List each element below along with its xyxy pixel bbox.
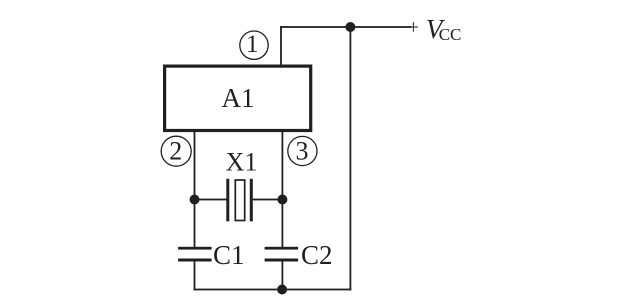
capacitor C1 top plate [178,247,212,250]
svg-text:X1: X1 [226,147,258,176]
svg-text:2: 2 [169,137,182,166]
svg-text:C2: C2 [301,240,333,270]
svg-text:A1: A1 [222,83,255,113]
junction node bottom dot [277,285,287,295]
pin 2 circle [161,136,191,166]
junction node crystal left dot [190,195,200,205]
wire C2 bottom plate to rail [282,261,284,291]
wire top horizontal to +VCC [280,26,411,28]
capacitor C1 bottom plate [178,259,212,262]
svg-text:3: 3 [296,137,309,166]
wire pin2 vertical from A1 bottom to C1 top plate [194,130,196,247]
wire pin3 vertical from A1 bottom to C2 top plate [282,130,284,247]
crystal X1 body rectangle [235,180,244,221]
wire right vertical from VCC dot to bottom rail [350,27,352,290]
capacitor C2 top plate [265,247,299,250]
junction node crystal right dot [277,195,287,205]
wire pin1 vertical from A1 top to VCC rail [280,26,282,67]
svg-text:C1: C1 [213,240,245,270]
svg-text:1: 1 [246,31,259,58]
junction node VCC dot [345,22,355,32]
svg-text:CC: CC [439,25,462,44]
crystal X1 right plate [250,179,253,222]
wire crystal right stub [253,199,283,201]
pin 3 circle [288,136,317,165]
wire bottom ground rail [194,289,352,291]
wire crystal left stub [195,199,227,201]
svg-text:+: + [408,17,419,39]
capacitor C2 bottom plate [265,259,299,262]
pin 1 circle [240,31,268,59]
op-amp A1 box [165,66,311,130]
crystal X1 left plate [226,179,229,222]
wire C1 bottom plate to rail [194,261,196,291]
